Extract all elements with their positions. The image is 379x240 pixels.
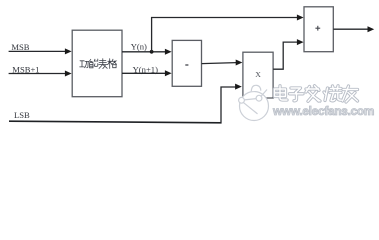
- arrow MSB into U1: [65, 48, 72, 54]
- svg-text:MSB+1: MSB+1: [12, 64, 39, 74]
- wire junction riser to top: [152, 18, 298, 52]
- 表: [99, 59, 107, 69]
- watermark logo pads: [239, 95, 262, 103]
- 电: [275, 86, 288, 100]
- label minus sign: [185, 64, 188, 66]
- arrow LSB into multiplier: [235, 84, 242, 90]
- 友: [343, 86, 358, 102]
- 能: [90, 59, 98, 68]
- svg-text:X: X: [255, 70, 261, 79]
- wire MSB input: [9, 50, 66, 52]
- block U3 multiplier: [243, 52, 273, 98]
- watermark text 电子发烧友 (hand-drawn strokes): [275, 86, 358, 102]
- wire Y(n+1) from U1 to subtractor: [122, 72, 166, 74]
- wire multiplier output to adder: [273, 42, 297, 69]
- label 功能表格 (hand-drawn strokes): [80, 59, 117, 69]
- svg-text:Y(n): Y(n): [131, 42, 147, 52]
- arrow MSB+1 into U1: [65, 71, 72, 77]
- wire subtractor to multiplier: [202, 63, 237, 64]
- arrow final output: [368, 26, 375, 32]
- 发: [306, 86, 320, 102]
- arrow Y(n+1) into subtractor: [165, 70, 172, 76]
- arrow into adder lower input: [297, 39, 304, 45]
- block U4 adder: [304, 7, 333, 52]
- watermark logo circle (painted over diagram): [240, 92, 269, 121]
- 功: [80, 61, 89, 68]
- wire LSB riser up: [221, 87, 236, 122]
- block U2 subtractor: [172, 40, 201, 86]
- arrow top wire into adder: [297, 15, 304, 21]
- svg-text:www.elecfans.com: www.elecfans.com: [272, 104, 374, 118]
- wire output from adder: [333, 28, 368, 30]
- label plus sign: [315, 26, 320, 31]
- 格: [108, 59, 117, 69]
- watermark logo zigzag link: [244, 90, 267, 114]
- 子: [290, 88, 304, 101]
- svg-text:MSB: MSB: [11, 42, 29, 52]
- 烧: [324, 86, 341, 101]
- wire Y(n) from U1 to subtractor: [122, 51, 166, 53]
- svg-text:LSB: LSB: [14, 110, 30, 120]
- wire MSB+1 input: [9, 73, 66, 75]
- block U1 功能表格 (function table): [72, 30, 122, 97]
- arrow Y(n) into subtractor: [165, 49, 172, 55]
- arrow into multiplier top input: [236, 60, 243, 66]
- node junction on Y(n): [150, 50, 154, 54]
- watermark text white inner stroke: [275, 86, 358, 102]
- wire LSB horizontal: [9, 121, 222, 123]
- watermark logo top tab: [251, 85, 260, 91]
